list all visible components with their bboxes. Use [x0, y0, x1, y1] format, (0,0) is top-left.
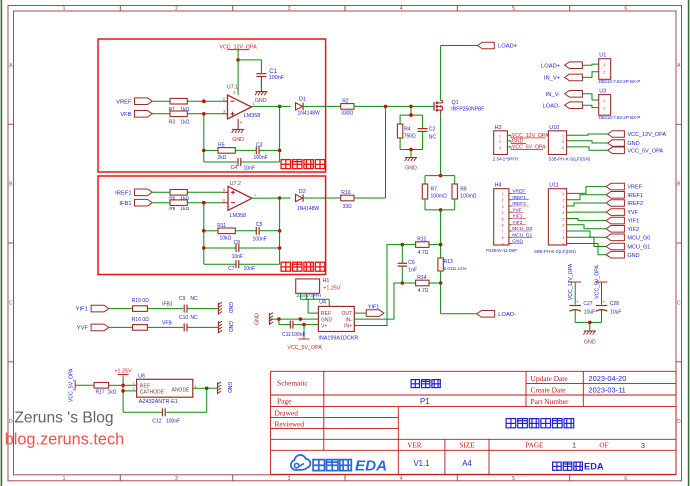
svg-text:4: 4 — [400, 6, 403, 12]
svg-text:IREF1: IREF1 — [115, 191, 131, 197]
svg-text:A4: A4 — [462, 459, 472, 468]
svg-text:100nF: 100nF — [269, 75, 285, 81]
svg-text:IN_V+: IN_V+ — [544, 76, 561, 82]
svg-text:Page: Page — [277, 397, 292, 406]
svg-text:2: 2 — [562, 140, 564, 144]
svg-text:330Ω: 330Ω — [341, 110, 353, 116]
svg-text:U7.1: U7.1 — [227, 85, 238, 91]
svg-text:3: 3 — [563, 205, 565, 209]
svg-text:C6: C6 — [408, 260, 415, 266]
svg-text:2: 2 — [502, 199, 504, 203]
svg-text:H4: H4 — [495, 183, 502, 189]
svg-text:REF: REF — [140, 383, 150, 389]
svg-text:4: 4 — [240, 121, 242, 125]
svg-text:NC: NC — [429, 134, 437, 140]
svg-text:3: 3 — [288, 476, 291, 482]
svg-text:VCC_12V_OPA: VCC_12V_OPA — [627, 132, 666, 138]
svg-text:VREF: VREF — [116, 99, 132, 105]
svg-text:1: 1 — [563, 192, 565, 196]
svg-text:U3: U3 — [599, 88, 606, 94]
svg-text:Q1: Q1 — [452, 100, 459, 106]
svg-text:3: 3 — [195, 384, 197, 388]
svg-text:U1: U1 — [599, 53, 606, 59]
svg-text:C2: C2 — [429, 127, 436, 133]
svg-text:YIF1: YIF1 — [368, 304, 379, 310]
svg-text:8: 8 — [563, 236, 565, 240]
svg-text:6: 6 — [563, 224, 565, 228]
svg-text:OF: OF — [599, 442, 608, 450]
svg-text:AZ432ANTR-E1: AZ432ANTR-E1 — [139, 399, 178, 405]
svg-text:LM358: LM358 — [230, 213, 246, 219]
svg-text:GND: GND — [627, 141, 639, 147]
svg-text:C9: C9 — [179, 296, 186, 302]
svg-text:+1.25V: +1.25V — [114, 368, 132, 374]
svg-text:R14: R14 — [417, 275, 426, 281]
svg-text:D2: D2 — [299, 189, 306, 195]
svg-text:EDA: EDA — [355, 457, 387, 474]
svg-text:C3: C3 — [256, 142, 263, 148]
svg-text:GND: GND — [627, 253, 639, 259]
svg-text:2: 2 — [499, 140, 501, 144]
svg-text:U4: U4 — [319, 299, 326, 305]
svg-text:4: 4 — [502, 211, 504, 215]
svg-text:MCU_G0: MCU_G0 — [627, 235, 650, 241]
svg-text:U10: U10 — [549, 125, 559, 131]
svg-text:GND: GND — [227, 302, 233, 314]
svg-text:YIF1: YIF1 — [512, 214, 522, 220]
svg-text:3: 3 — [562, 146, 564, 150]
svg-text:8: 8 — [233, 91, 235, 95]
svg-text:GND: GND — [255, 313, 261, 325]
svg-text:4: 4 — [400, 476, 403, 482]
svg-text:GND: GND — [226, 382, 232, 394]
svg-text:Schematic: Schematic — [277, 378, 309, 387]
svg-text:C28: C28 — [610, 301, 619, 307]
svg-text:10nF: 10nF — [232, 254, 243, 260]
svg-text:SIZE: SIZE — [459, 442, 475, 450]
svg-text:P2254V-11-09P: P2254V-11-09P — [486, 248, 517, 253]
svg-text:+: + — [603, 300, 606, 305]
svg-text:Part Number: Part Number — [531, 397, 570, 406]
svg-text:H1: H1 — [323, 278, 330, 284]
svg-text:VFB: VFB — [162, 321, 172, 327]
svg-text:VCC_5V_OPA: VCC_5V_OPA — [69, 368, 75, 402]
svg-text:GND: GND — [512, 139, 524, 145]
svg-text:5: 5 — [512, 6, 515, 12]
svg-text:R11: R11 — [217, 223, 226, 229]
svg-text:DB110-7.62-2P-BX-P: DB110-7.62-2P-BX-P — [599, 79, 641, 84]
svg-text:10uF: 10uF — [610, 309, 621, 315]
svg-text:2: 2 — [175, 476, 178, 482]
svg-text:OUT: OUT — [341, 311, 352, 317]
svg-text:VREF: VREF — [512, 189, 525, 195]
svg-text:VER: VER — [407, 442, 422, 450]
svg-text:3: 3 — [288, 6, 291, 12]
svg-text:IN+: IN+ — [344, 323, 352, 329]
svg-text:3: 3 — [223, 109, 225, 113]
svg-text:LOAD+: LOAD+ — [498, 44, 518, 50]
svg-text:R3: R3 — [169, 119, 176, 125]
svg-text:R13: R13 — [444, 259, 453, 265]
svg-text:VREF: VREF — [627, 185, 642, 191]
svg-text:YVF: YVF — [512, 207, 521, 213]
svg-text:7: 7 — [563, 230, 565, 234]
svg-text:C12: C12 — [152, 419, 161, 425]
svg-text:MCU_G1: MCU_G1 — [627, 245, 650, 251]
svg-text:CATHODE: CATHODE — [140, 390, 165, 396]
svg-text:2: 2 — [175, 6, 178, 12]
svg-text:U11: U11 — [549, 183, 559, 189]
svg-text:1: 1 — [63, 476, 66, 482]
svg-text:2kΩ: 2kΩ — [217, 155, 226, 161]
svg-text:100nF: 100nF — [254, 155, 268, 161]
svg-text:2: 2 — [223, 97, 225, 101]
svg-text:YVF: YVF — [627, 210, 638, 216]
svg-text:10kΩ: 10kΩ — [220, 235, 232, 241]
svg-text:NC: NC — [190, 296, 198, 302]
svg-text:R17: R17 — [96, 389, 105, 395]
svg-text:S3B-PH-K-S(LF)(SN): S3B-PH-K-S(LF)(SN) — [548, 156, 590, 161]
svg-text:1: 1 — [133, 381, 135, 385]
svg-text:33Ω: 33Ω — [343, 204, 353, 210]
svg-text:IFB1: IFB1 — [162, 302, 173, 308]
svg-text:7: 7 — [502, 230, 504, 234]
svg-text:R7: R7 — [431, 187, 438, 193]
svg-text:9: 9 — [502, 242, 504, 246]
svg-text:C27: C27 — [583, 301, 592, 307]
svg-text:Update Date: Update Date — [531, 374, 569, 383]
svg-text:0.01Ω ±1%: 0.01Ω ±1% — [444, 266, 467, 271]
svg-text:PAGE: PAGE — [525, 442, 544, 450]
svg-text:+1.25V: +1.25V — [323, 285, 341, 291]
svg-text:VFB: VFB — [120, 112, 131, 118]
svg-text:1: 1 — [253, 102, 255, 106]
svg-text:R5: R5 — [218, 142, 225, 148]
svg-text:IRFP250NPBF: IRFP250NPBF — [451, 106, 484, 112]
svg-text:750Ω: 750Ω — [404, 133, 416, 139]
svg-text:INA199A1DCKR: INA199A1DCKR — [318, 336, 358, 342]
svg-text:GND: GND — [255, 98, 267, 104]
svg-text:VCC_5V_OPA: VCC_5V_OPA — [627, 148, 663, 154]
svg-text:10nF: 10nF — [244, 266, 255, 272]
svg-text:R8: R8 — [460, 187, 467, 193]
svg-text:3: 3 — [641, 441, 645, 450]
svg-text:VCC_5V_OPA: VCC_5V_OPA — [512, 145, 546, 151]
svg-text:4.7Ω: 4.7Ω — [418, 288, 429, 294]
svg-text:100nF: 100nF — [291, 332, 305, 338]
svg-text:1N4148W: 1N4148W — [298, 110, 321, 116]
svg-text:100mΩ: 100mΩ — [431, 194, 448, 200]
svg-text:100nF: 100nF — [253, 236, 267, 242]
svg-text:C11: C11 — [282, 332, 291, 338]
svg-text:YIF1: YIF1 — [627, 219, 639, 225]
svg-text:VCC_5V_OPA: VCC_5V_OPA — [287, 345, 322, 351]
svg-text:Drawed: Drawed — [275, 409, 299, 418]
svg-text:6: 6 — [624, 476, 627, 482]
svg-text:R9: R9 — [169, 206, 175, 212]
svg-text:C4: C4 — [231, 165, 238, 171]
svg-text:2023-03-11: 2023-03-11 — [589, 385, 626, 394]
svg-text:YIF2: YIF2 — [512, 220, 522, 226]
svg-text:YVF: YVF — [77, 326, 89, 332]
svg-text:VCC_12V_OPA: VCC_12V_OPA — [568, 263, 574, 300]
svg-text:1kΩ: 1kΩ — [180, 119, 189, 125]
svg-text:GND: GND — [405, 165, 417, 171]
svg-text:9: 9 — [563, 242, 565, 246]
svg-text:Reviewed: Reviewed — [275, 420, 305, 429]
svg-text:1N4148W: 1N4148W — [297, 206, 320, 212]
svg-text:5: 5 — [563, 217, 565, 221]
svg-text:V1.1: V1.1 — [413, 459, 429, 468]
svg-text:IREF1: IREF1 — [512, 195, 526, 201]
svg-text:LOAD-: LOAD- — [498, 312, 516, 318]
svg-text:2.54-1*3PFH: 2.54-1*3PFH — [493, 156, 518, 161]
svg-text:R4: R4 — [404, 127, 411, 133]
svg-text:8: 8 — [502, 236, 504, 240]
svg-text:5: 5 — [502, 217, 504, 221]
svg-text:C: C — [9, 300, 13, 306]
svg-text:3: 3 — [499, 146, 501, 150]
svg-text:IREF2: IREF2 — [512, 201, 526, 207]
svg-text:P1: P1 — [420, 397, 430, 406]
svg-text:C10: C10 — [179, 315, 188, 321]
svg-text:DB110-7.62-2P-BX-P: DB110-7.62-2P-BX-P — [599, 115, 641, 120]
svg-text:D: D — [677, 419, 681, 425]
svg-text:R16 0Ω: R16 0Ω — [132, 317, 149, 323]
svg-text:C5: C5 — [256, 222, 263, 228]
svg-text:3: 3 — [502, 205, 504, 209]
svg-text:100nF: 100nF — [166, 419, 180, 425]
svg-text:5: 5 — [512, 476, 515, 482]
svg-text:1kΩ: 1kΩ — [108, 389, 117, 395]
svg-text:4: 4 — [563, 211, 565, 215]
svg-text:GND: GND — [512, 239, 523, 245]
svg-text:2: 2 — [563, 199, 565, 203]
svg-text:H3: H3 — [495, 125, 502, 131]
svg-text:IREF2: IREF2 — [627, 201, 643, 207]
svg-text:1: 1 — [499, 134, 501, 138]
svg-text:S9B-PH-K-S(LF)(SN): S9B-PH-K-S(LF)(SN) — [534, 249, 576, 254]
svg-text:GND: GND — [584, 339, 596, 345]
svg-text:C: C — [677, 300, 681, 306]
svg-text:REF: REF — [321, 311, 331, 317]
svg-text:GND: GND — [227, 321, 233, 333]
svg-text:1kΩ: 1kΩ — [180, 206, 189, 212]
svg-text:100mΩ: 100mΩ — [460, 194, 477, 200]
svg-text:R15 0Ω: R15 0Ω — [132, 298, 149, 304]
svg-text:1: 1 — [562, 134, 564, 138]
svg-text:4.7Ω: 4.7Ω — [418, 250, 429, 256]
svg-text:Zeruns 's Blog: Zeruns 's Blog — [14, 410, 113, 427]
svg-text:YIF1: YIF1 — [76, 307, 88, 313]
svg-text:R2: R2 — [342, 99, 349, 105]
svg-text:Create Date: Create Date — [531, 385, 567, 394]
svg-text:IFB1: IFB1 — [119, 201, 131, 207]
svg-text:LM358: LM358 — [244, 113, 260, 119]
svg-text:U6: U6 — [138, 373, 145, 379]
svg-text:1: 1 — [572, 441, 576, 450]
svg-text:NC: NC — [190, 315, 198, 321]
svg-text:GND: GND — [232, 137, 244, 143]
svg-text:2023-04-20: 2023-04-20 — [589, 374, 627, 383]
svg-text:LOAD-: LOAD- — [542, 103, 560, 109]
svg-text:D1: D1 — [299, 96, 306, 102]
svg-text:1: 1 — [63, 6, 66, 12]
svg-text:1nF: 1nF — [408, 268, 417, 274]
svg-text:6: 6 — [624, 6, 627, 12]
svg-text:EDA: EDA — [584, 461, 604, 471]
svg-text:LOAD+: LOAD+ — [541, 63, 561, 69]
svg-text:10nF: 10nF — [244, 166, 255, 172]
svg-text:10uF: 10uF — [584, 309, 595, 315]
svg-text:YIF2: YIF2 — [627, 227, 639, 233]
svg-text:MCU_G1: MCU_G1 — [512, 233, 532, 239]
svg-text:1: 1 — [502, 192, 504, 196]
svg-text:R10: R10 — [341, 190, 350, 196]
svg-text:blog.zeruns.tech: blog.zeruns.tech — [5, 431, 124, 449]
svg-text:R12: R12 — [417, 237, 426, 243]
svg-text:C7: C7 — [228, 266, 235, 272]
svg-text:U7.2: U7.2 — [230, 181, 241, 187]
svg-text:IREF1: IREF1 — [627, 193, 643, 199]
svg-text:6: 6 — [223, 198, 225, 202]
svg-text:VCC_5V_OPA: VCC_5V_OPA — [594, 265, 600, 299]
svg-text:ANODE: ANODE — [172, 387, 190, 393]
svg-text:MCU_G0: MCU_G0 — [512, 226, 532, 232]
svg-text:5: 5 — [223, 188, 225, 192]
svg-text:2: 2 — [133, 387, 135, 391]
svg-text:7: 7 — [254, 194, 256, 198]
svg-text:V+: V+ — [321, 323, 327, 329]
svg-text:D: D — [9, 419, 13, 425]
svg-text:IN_V-: IN_V- — [546, 92, 561, 98]
svg-text:+: + — [576, 300, 579, 305]
svg-text:C8: C8 — [234, 240, 241, 246]
svg-text:6: 6 — [502, 224, 504, 228]
